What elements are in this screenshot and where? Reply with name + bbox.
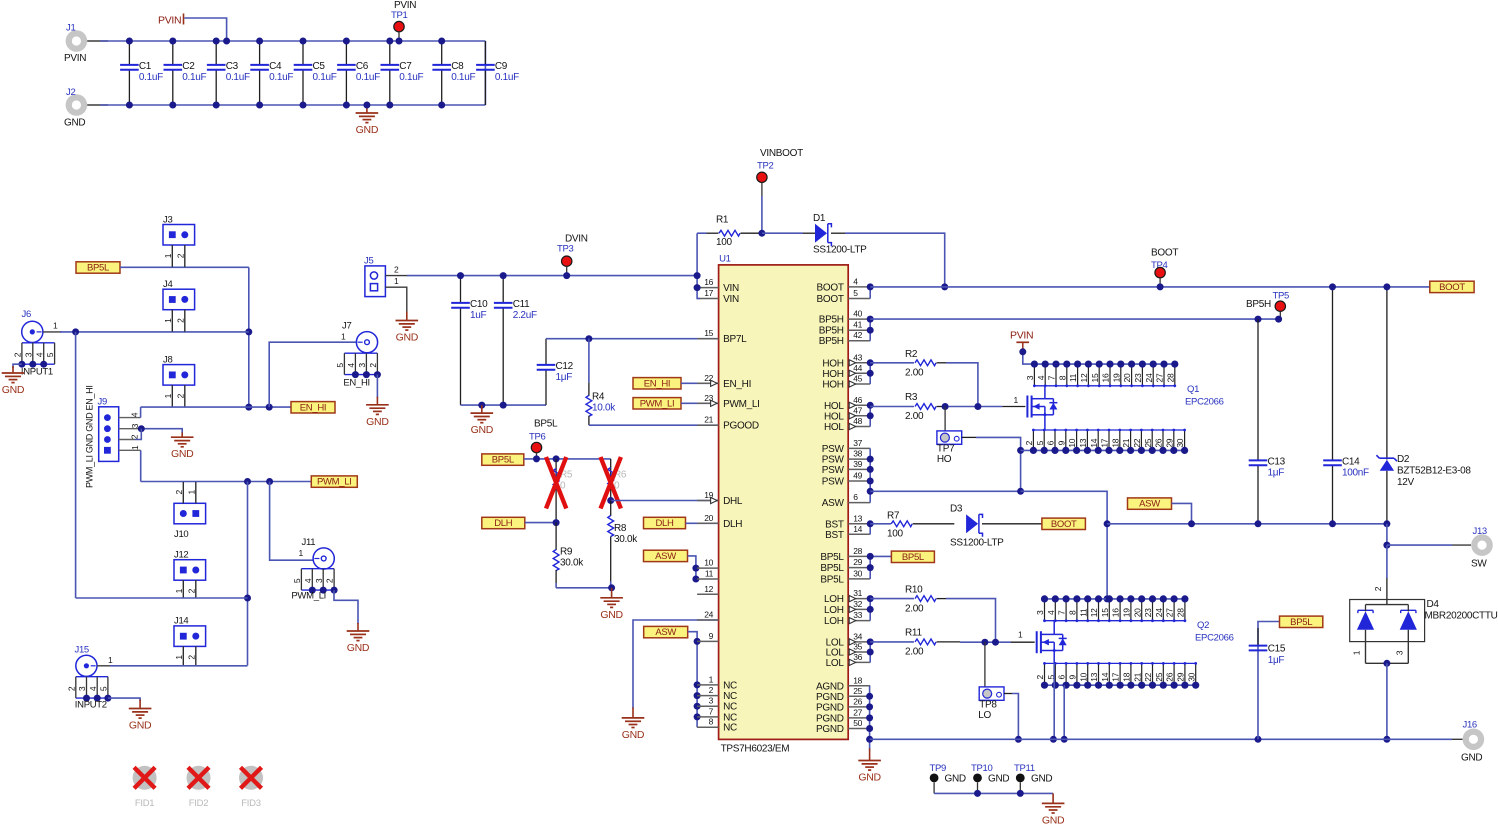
junction [608, 584, 615, 591]
wire [270, 482, 313, 561]
svg-text:PWM_LI: PWM_LI [723, 399, 760, 410]
test point TP8 [978, 642, 1004, 721]
svg-text:PWM_LI: PWM_LI [317, 477, 352, 488]
svg-text:2: 2 [13, 352, 23, 357]
resistor R6 (DNP) [601, 457, 627, 509]
junction [500, 402, 507, 409]
wire [525, 522, 556, 524]
junction [981, 639, 988, 646]
wire [1004, 693, 1012, 695]
svg-text:2.00: 2.00 [905, 368, 924, 379]
wire [1002, 406, 1025, 408]
svg-text:39: 39 [853, 459, 862, 469]
svg-text:38: 38 [853, 449, 862, 459]
svg-text:C11: C11 [513, 299, 530, 310]
svg-text:VIN: VIN [723, 294, 739, 305]
ground [1042, 793, 1065, 824]
junction [300, 38, 307, 45]
test point TP3 [557, 234, 588, 276]
wire J14 row [110, 665, 248, 667]
wire [140, 407, 142, 418]
net label DLH [482, 517, 525, 529]
pin 38 PSW [822, 449, 870, 466]
wire [43, 331, 62, 333]
svg-text:37: 37 [853, 438, 862, 448]
svg-text:AGND: AGND [816, 681, 844, 692]
test point TP7 [937, 407, 962, 465]
pin 10 [697, 558, 719, 569]
junction [438, 102, 445, 109]
pin 41 BP5H [819, 320, 870, 337]
svg-text:2: 2 [325, 578, 335, 583]
junction [563, 272, 570, 279]
wire [1386, 545, 1388, 578]
junction [1383, 736, 1390, 743]
capacitor C2 [164, 41, 207, 105]
wire DVIN rail [407, 275, 697, 277]
fiducial FID1 [133, 766, 157, 809]
svg-text:15: 15 [1100, 608, 1110, 617]
net label EN_HI [291, 402, 335, 414]
svg-text:26: 26 [1154, 438, 1164, 447]
pin 14 BST [825, 524, 870, 541]
svg-text:3: 3 [709, 696, 714, 706]
wire [688, 632, 697, 728]
svg-text:R4: R4 [592, 392, 605, 403]
pin 44 HOH [822, 363, 870, 380]
svg-text:TP1: TP1 [391, 10, 408, 21]
test point TP5 [1246, 291, 1289, 320]
svg-text:1μF: 1μF [1268, 655, 1285, 666]
transistor Q1 label [1185, 384, 1224, 408]
svg-text:D4: D4 [1427, 599, 1440, 610]
junction [867, 488, 874, 495]
svg-text:24: 24 [1144, 373, 1154, 382]
svg-text:12: 12 [1089, 608, 1099, 617]
svg-text:20: 20 [704, 513, 713, 523]
svg-text:48: 48 [853, 416, 862, 426]
pin 39 PSW [822, 459, 870, 476]
svg-text:GND: GND [366, 416, 389, 428]
svg-text:25: 25 [1154, 672, 1164, 681]
svg-text:BST: BST [825, 530, 844, 541]
svg-text:EN_HI: EN_HI [644, 378, 670, 389]
svg-text:J12: J12 [174, 550, 188, 561]
svg-text:R3: R3 [905, 392, 918, 403]
svg-text:GND: GND [347, 642, 370, 654]
wire J9.3 [119, 428, 140, 430]
svg-text:16: 16 [704, 277, 713, 287]
svg-text:0.1uF: 0.1uF [399, 72, 423, 83]
svg-text:C6: C6 [356, 61, 369, 72]
svg-text:C13: C13 [1268, 457, 1286, 468]
svg-text:R2: R2 [905, 349, 918, 360]
svg-text:VINBOOT: VINBOOT [760, 148, 803, 159]
svg-text:J8: J8 [163, 354, 172, 365]
svg-text:29: 29 [1164, 438, 1174, 447]
svg-text:BP7L: BP7L [723, 334, 747, 345]
transistor Q1 drain row [1025, 361, 1178, 388]
svg-text:22: 22 [1132, 438, 1142, 447]
transistor Q2 source row [1035, 662, 1199, 689]
svg-text:SS1200-LTP: SS1200-LTP [950, 538, 1004, 549]
junction [213, 102, 220, 109]
pin 1 NC [697, 674, 737, 691]
junction [942, 403, 949, 410]
junction [694, 692, 701, 699]
junction [974, 403, 981, 410]
svg-text:25: 25 [853, 686, 862, 696]
wire [1386, 578, 1388, 605]
pin 6 ASW [822, 492, 870, 509]
pin 23 PWM_LI [697, 393, 760, 410]
wire [376, 375, 378, 398]
svg-text:INPUT2: INPUT2 [75, 700, 107, 711]
svg-text:C9: C9 [495, 61, 508, 72]
svg-text:28: 28 [853, 546, 862, 556]
svg-text:7: 7 [1057, 610, 1067, 615]
ground [129, 700, 152, 732]
pin 2 NC [697, 685, 737, 702]
svg-text:24: 24 [1154, 608, 1164, 617]
ground [396, 312, 419, 344]
connector J15 pins [66, 677, 111, 711]
svg-text:HOH: HOH [822, 369, 843, 380]
svg-text:GND: GND [171, 448, 194, 460]
wire [870, 555, 891, 557]
svg-text:EPC2066: EPC2066 [1185, 397, 1224, 408]
wire PGOOD row [589, 424, 719, 426]
junction [223, 38, 230, 45]
wire [869, 319, 871, 341]
ground [2, 366, 25, 396]
svg-text:6: 6 [1057, 675, 1067, 680]
svg-text:1: 1 [709, 674, 714, 684]
pin 21 PGOOD [697, 415, 759, 432]
junction [867, 359, 874, 366]
svg-text:8: 8 [1068, 610, 1078, 615]
svg-text:21: 21 [704, 415, 713, 425]
svg-text:U1: U1 [719, 253, 731, 264]
svg-text:EN_HI: EN_HI [343, 378, 369, 389]
wire [484, 41, 486, 105]
svg-text:C3: C3 [226, 61, 239, 72]
diode D3 [950, 504, 1004, 549]
resistor R9 [553, 523, 584, 588]
svg-text:27: 27 [1165, 608, 1175, 617]
svg-text:1: 1 [1014, 395, 1019, 405]
svg-text:2: 2 [174, 490, 184, 495]
junction [266, 404, 273, 411]
junction [500, 272, 507, 279]
test point TP2 [757, 148, 803, 233]
svg-text:J16: J16 [1463, 720, 1477, 731]
svg-text:17: 17 [1111, 672, 1121, 681]
svg-text:PGOOD: PGOOD [723, 421, 759, 432]
test point TP1 [391, 0, 416, 41]
svg-text:4: 4 [1036, 375, 1046, 380]
svg-text:R10: R10 [905, 585, 923, 596]
net label PWM_LI [311, 476, 357, 488]
resistor R2 [870, 349, 946, 379]
wire [681, 402, 719, 404]
test point TP4 [1151, 248, 1178, 287]
capacitor C11 [494, 276, 537, 406]
pin 9 [697, 631, 719, 642]
svg-text:EN_HI: EN_HI [300, 402, 326, 413]
junction [867, 316, 874, 323]
junction [1383, 520, 1390, 527]
svg-text:4: 4 [88, 686, 98, 691]
svg-text:13: 13 [1089, 672, 1099, 681]
svg-text:PWM_LI: PWM_LI [291, 591, 326, 602]
svg-text:34: 34 [853, 631, 862, 641]
svg-text:4: 4 [853, 276, 858, 286]
svg-text:1: 1 [174, 588, 184, 593]
svg-text:1μF: 1μF [556, 372, 573, 383]
resistor R5 (DNP) [546, 457, 573, 523]
svg-text:9: 9 [709, 631, 714, 641]
svg-text:HOH: HOH [822, 380, 843, 391]
net label ASW [644, 550, 688, 562]
wire [1452, 544, 1471, 546]
pin 30 BP5L [820, 568, 870, 585]
svg-text:BP5H: BP5H [819, 336, 844, 347]
pin 17 VIN [697, 288, 739, 305]
svg-text:FID2: FID2 [189, 798, 208, 809]
junction [867, 456, 874, 463]
svg-text:FID3: FID3 [241, 798, 260, 809]
junction [1255, 736, 1262, 743]
junction [457, 272, 464, 279]
svg-text:2: 2 [66, 686, 76, 691]
wire [869, 287, 871, 299]
wire BOOT rail [870, 286, 1430, 288]
capacitor C6 [337, 41, 380, 105]
junction [692, 565, 699, 572]
wire [845, 233, 945, 287]
svg-text:BP5L: BP5L [534, 419, 558, 430]
connector J7 pins [335, 353, 381, 388]
svg-text:0.1uF: 0.1uF [269, 72, 293, 83]
svg-text:15: 15 [1090, 373, 1100, 382]
wire [13, 364, 22, 368]
svg-text:3: 3 [314, 578, 324, 583]
net label ASW [1128, 498, 1172, 510]
svg-text:2.00: 2.00 [905, 411, 924, 422]
svg-text:HOL: HOL [824, 422, 844, 433]
svg-text:LOH: LOH [824, 605, 844, 616]
svg-text:28: 28 [1165, 373, 1175, 382]
junction [867, 595, 874, 602]
wire [75, 332, 77, 598]
junction [396, 38, 403, 45]
junction [694, 681, 701, 688]
svg-text:PSW: PSW [822, 477, 845, 488]
svg-text:14: 14 [853, 524, 862, 534]
pin 26 PGND [816, 696, 870, 713]
junction [169, 102, 176, 109]
pin 35 LOL [826, 642, 871, 659]
svg-text:0.1uF: 0.1uF [495, 72, 519, 83]
junction [438, 38, 445, 45]
connector J7 [341, 321, 378, 353]
junction [992, 639, 999, 646]
svg-text:J2: J2 [66, 87, 75, 98]
junction [1019, 348, 1026, 355]
junction [607, 497, 614, 504]
junction [1104, 520, 1111, 527]
capacitor C8 [432, 41, 475, 105]
power PVIN [1010, 330, 1033, 353]
svg-text:10: 10 [1067, 438, 1077, 447]
svg-text:BP5L: BP5L [492, 455, 514, 466]
svg-text:10: 10 [704, 558, 713, 568]
svg-text:BST: BST [825, 519, 844, 530]
pin 19 DHL [697, 490, 743, 507]
wire [1387, 544, 1452, 546]
ground [356, 105, 379, 136]
junction [1188, 520, 1195, 527]
pin 18 AGND [816, 675, 870, 692]
svg-text:44: 44 [853, 363, 862, 373]
svg-text:1: 1 [53, 321, 58, 331]
svg-text:7: 7 [1047, 375, 1057, 380]
svg-text:BZT52B12-E3-08: BZT52B12-E3-08 [1397, 466, 1471, 477]
svg-text:1: 1 [163, 393, 173, 398]
svg-text:GND: GND [945, 774, 966, 785]
svg-text:47: 47 [853, 405, 862, 415]
wire DHL row [611, 500, 719, 502]
wire [1386, 524, 1388, 545]
capacitor C1 [120, 41, 163, 105]
svg-text:HO: HO [937, 454, 952, 465]
pin 37 PSW [822, 438, 870, 455]
svg-text:2: 2 [709, 685, 714, 695]
svg-text:3: 3 [1394, 650, 1404, 655]
svg-text:43: 43 [853, 352, 862, 362]
svg-text:J13: J13 [1473, 526, 1487, 537]
svg-text:5: 5 [45, 352, 55, 357]
wire [461, 404, 547, 406]
svg-text:2.00: 2.00 [905, 647, 924, 658]
wire GND rail [870, 738, 1452, 740]
connector J2 [64, 87, 87, 129]
svg-text:40: 40 [853, 309, 862, 319]
svg-text:4: 4 [1046, 610, 1056, 615]
connector J11 [299, 537, 335, 569]
svg-text:2: 2 [175, 253, 185, 258]
junction [363, 102, 370, 109]
svg-text:5: 5 [99, 686, 109, 691]
svg-text:23: 23 [1143, 608, 1153, 617]
wire [140, 450, 142, 481]
junction [758, 230, 765, 237]
wire [869, 363, 871, 384]
junction [1017, 447, 1024, 454]
resistor R1 [707, 215, 762, 249]
svg-text:TP6: TP6 [529, 432, 546, 443]
svg-text:BP5H: BP5H [819, 315, 844, 326]
wire [556, 587, 612, 589]
svg-text:BOOT: BOOT [1151, 248, 1178, 259]
svg-text:FID1: FID1 [135, 798, 154, 809]
net label PWM_LI [633, 398, 681, 410]
svg-text:HOH: HOH [822, 358, 843, 369]
pin 7 NC [697, 706, 737, 723]
pin 4 BOOT [817, 276, 871, 293]
svg-text:NC: NC [723, 702, 737, 713]
svg-text:PGND: PGND [816, 713, 844, 724]
junction [867, 553, 874, 560]
svg-text:1: 1 [130, 445, 140, 450]
pin 50 PGND [816, 718, 870, 735]
junction [866, 725, 873, 732]
capacitor C15 [1249, 622, 1286, 740]
pin 25 PGND [816, 686, 870, 703]
junction [1157, 283, 1164, 290]
diode D2 zener [1376, 287, 1471, 524]
pin 20 DLH [697, 513, 742, 530]
svg-text:2: 2 [1024, 440, 1034, 445]
transistor Q1 fet [1027, 386, 1057, 430]
wire [686, 522, 719, 524]
wire [385, 287, 406, 313]
wire [946, 599, 996, 643]
wire [334, 590, 358, 624]
resistor R11 [870, 628, 960, 658]
wire [869, 556, 871, 579]
svg-text:1: 1 [163, 253, 173, 258]
svg-text:19: 19 [1122, 608, 1132, 617]
junction [245, 404, 252, 411]
junction [866, 693, 873, 700]
svg-text:1: 1 [1352, 650, 1362, 655]
wire EN_HI row [141, 406, 291, 408]
wire [1386, 663, 1388, 739]
pin 29 BP5L [820, 557, 870, 574]
svg-text:D3: D3 [950, 504, 963, 515]
svg-text:NC: NC [723, 723, 737, 734]
connector J15 [75, 645, 114, 677]
wire [945, 406, 1002, 408]
junction [866, 736, 873, 743]
svg-text:GND: GND [1031, 774, 1052, 785]
svg-text:32: 32 [853, 599, 862, 609]
wire [524, 458, 611, 460]
svg-text:TP11: TP11 [1014, 763, 1035, 774]
pin 8 NC [697, 717, 737, 734]
wire J9.2 [119, 439, 135, 441]
junction [867, 466, 874, 473]
junction [694, 284, 701, 291]
pin 49 PSW [822, 471, 870, 488]
junction [126, 102, 133, 109]
svg-text:3: 3 [357, 363, 367, 368]
pin 47 HOL [824, 405, 870, 422]
connector J10 [174, 482, 206, 524]
svg-text:PVIN: PVIN [394, 0, 416, 11]
svg-text:36: 36 [853, 652, 862, 662]
svg-text:PWM_LI: PWM_LI [640, 398, 675, 409]
junction [343, 38, 350, 45]
junction [1383, 283, 1390, 290]
svg-text:GND: GND [1042, 814, 1065, 824]
svg-text:GND: GND [622, 729, 645, 741]
svg-text:5: 5 [335, 363, 345, 368]
resistor R7 [870, 511, 954, 540]
svg-text:0.1uF: 0.1uF [139, 72, 163, 83]
